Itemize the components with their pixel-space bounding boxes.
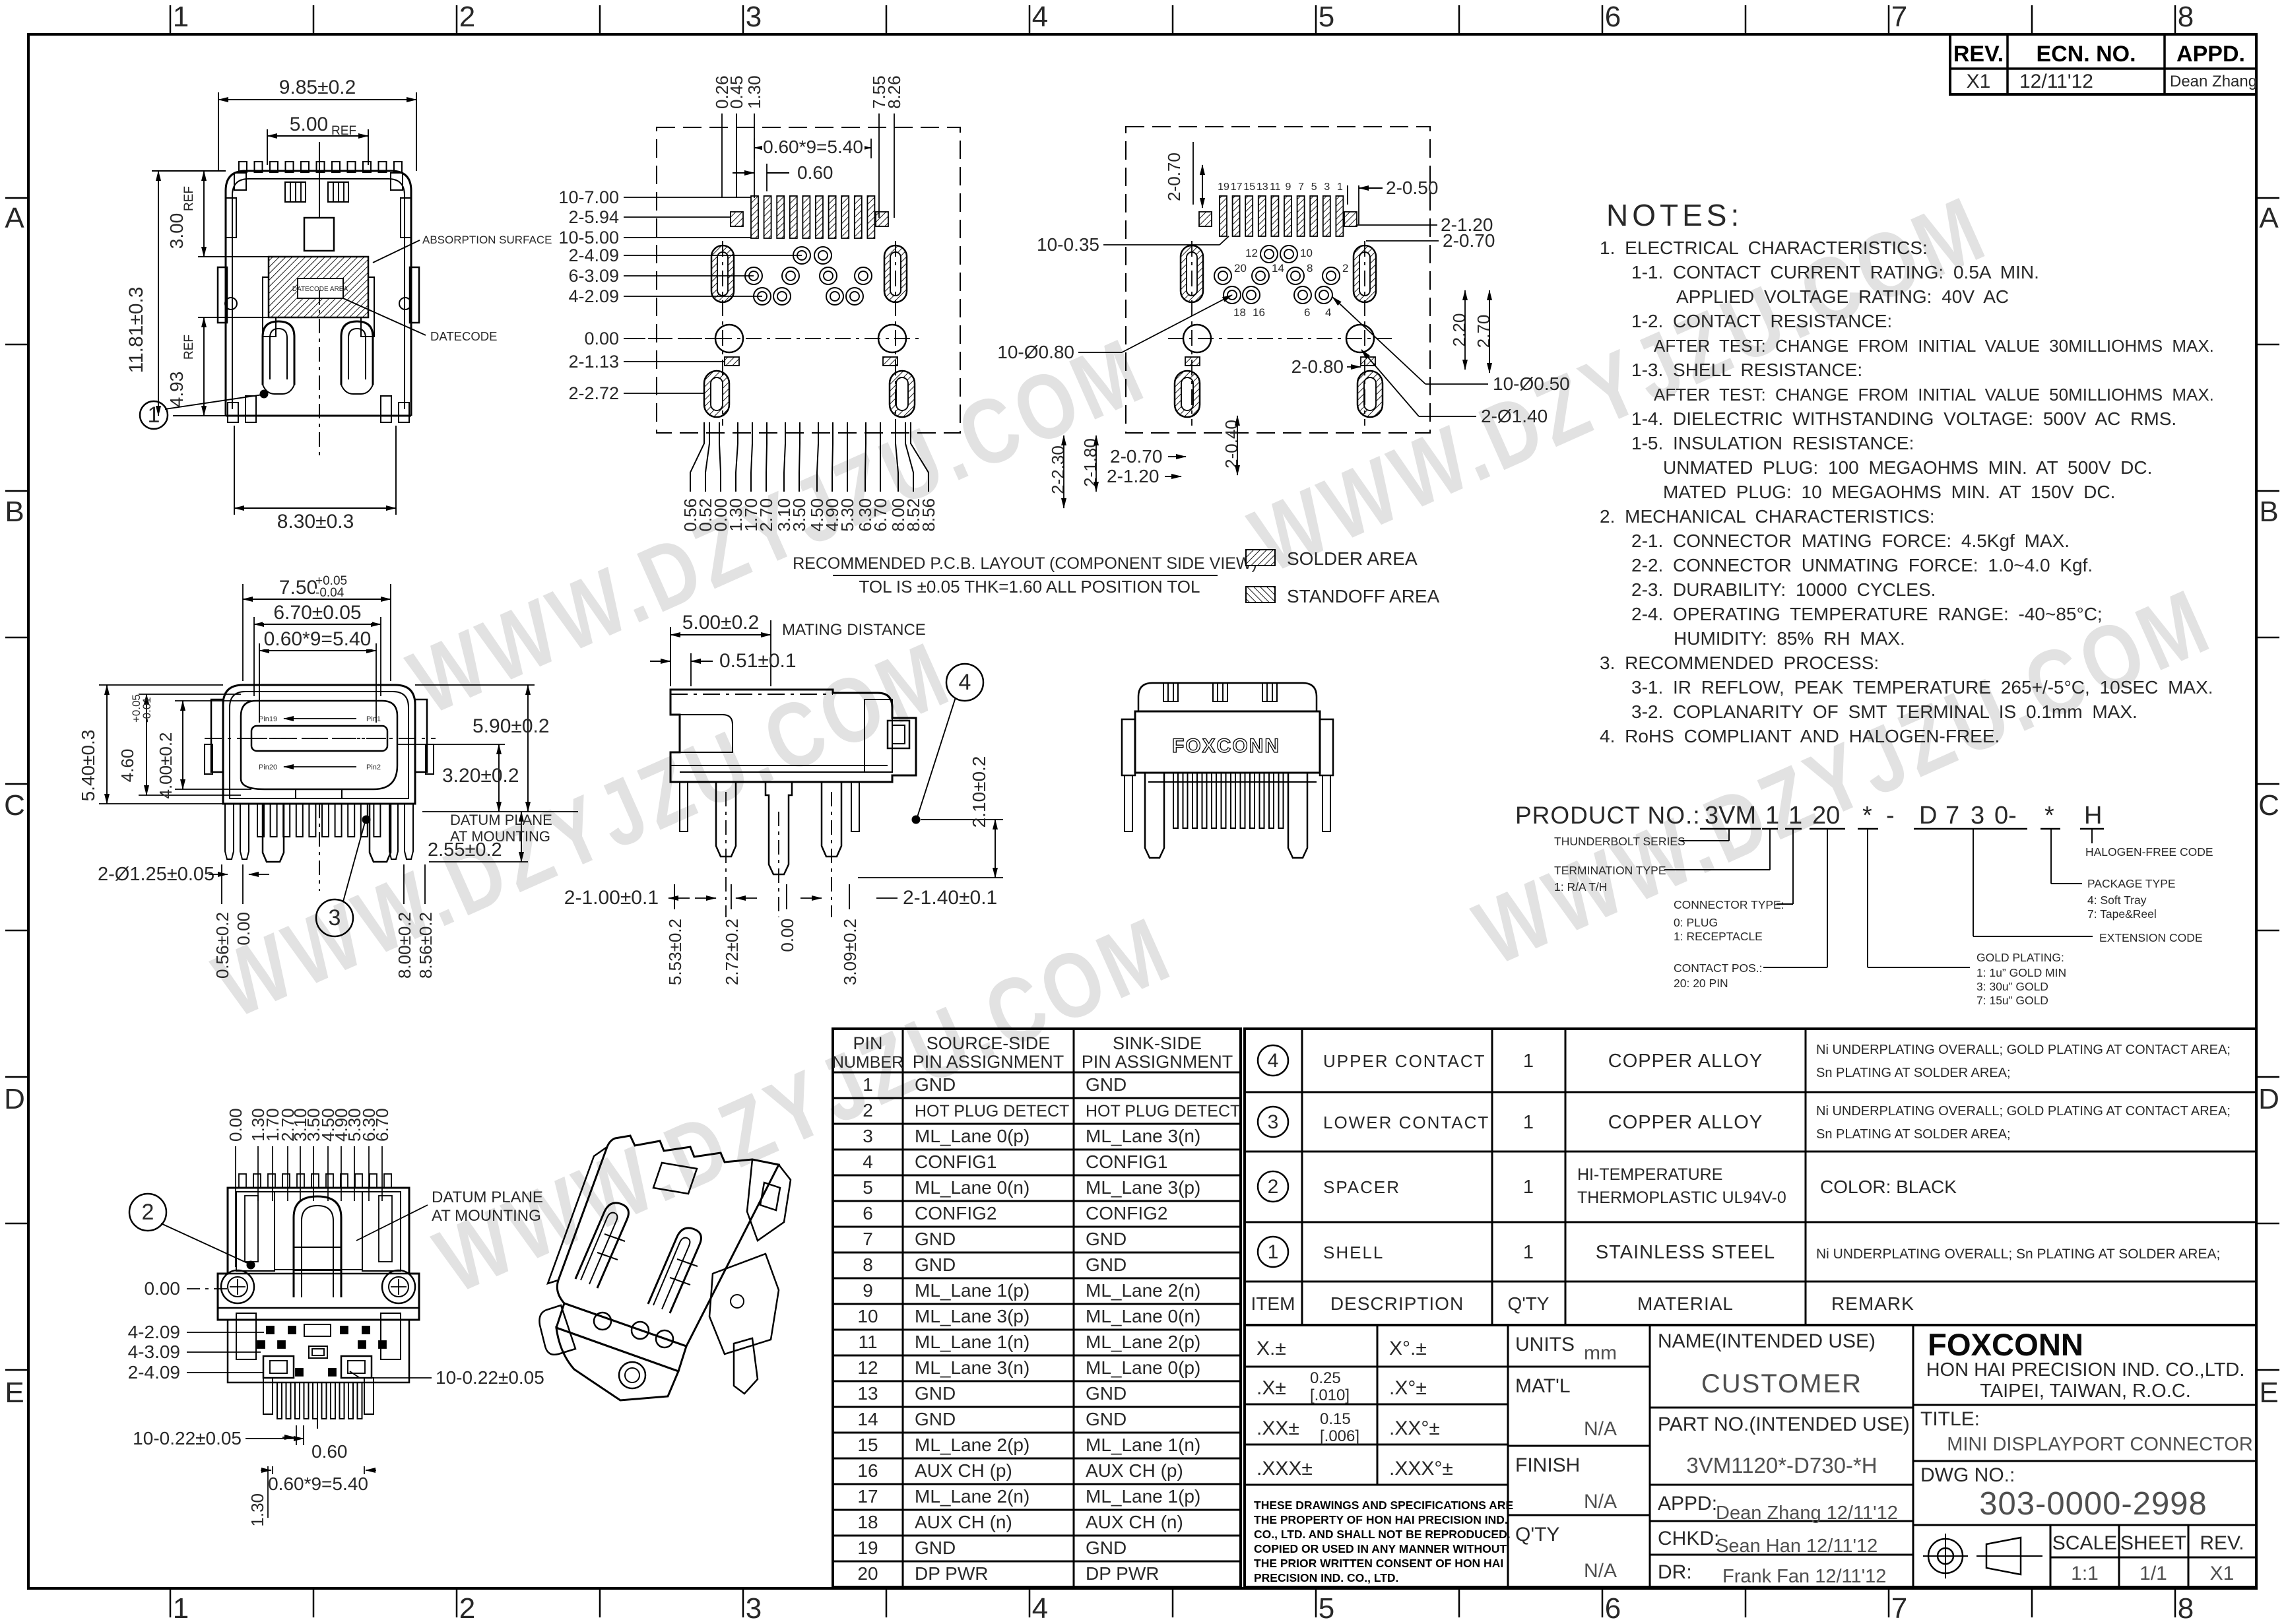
svg-text:Ni UNDERPLATING OVERALL; Sn P: Ni UNDERPLATING OVERALL; Sn PLATING AT S… bbox=[1816, 1247, 2220, 1262]
svg-text:PRECISION IND. CO., LTD.: PRECISION IND. CO., LTD. bbox=[1254, 1571, 1398, 1584]
svg-text:4: Soft Tray: 4: Soft Tray bbox=[2087, 893, 2147, 907]
svg-text:2-1.40±0.1: 2-1.40±0.1 bbox=[903, 887, 997, 909]
svg-text:2-4.09: 2-4.09 bbox=[128, 1362, 180, 1382]
view C centerlines bbox=[1191, 241, 1192, 426]
svg-text:2-0.80: 2-0.80 bbox=[1291, 356, 1344, 377]
svg-text:DWG NO.:: DWG NO.: bbox=[1920, 1464, 2015, 1486]
svg-text:9.85±0.2: 9.85±0.2 bbox=[279, 77, 356, 98]
view C: pcb layout right dashed outline bbox=[1126, 127, 1430, 433]
svg-text:0.60: 0.60 bbox=[311, 1441, 348, 1462]
view D dim 2.55 bbox=[429, 861, 528, 862]
svg-text:12: 12 bbox=[1245, 247, 1258, 259]
svg-text:1: 1 bbox=[1337, 181, 1343, 193]
svg-text:Ni UNDERPLATING OVERALL; GOL: Ni UNDERPLATING OVERALL; GOLD PLATING AT… bbox=[1816, 1043, 2231, 1057]
svg-text:1: 1 bbox=[1523, 1242, 1534, 1263]
watermark diagonal text instances bbox=[394, 315, 1162, 734]
svg-text:.XX°±: .XX°± bbox=[1389, 1417, 1440, 1439]
svg-text:0.00: 0.00 bbox=[584, 329, 619, 348]
svg-text:4-2.09: 4-2.09 bbox=[128, 1322, 180, 1342]
svg-text:N/A: N/A bbox=[1584, 1491, 1617, 1512]
revision table REV/ECN/APPD bbox=[1950, 34, 2256, 94]
svg-text:LOWER CONTACT: LOWER CONTACT bbox=[1323, 1113, 1489, 1132]
svg-text:C: C bbox=[2258, 789, 2279, 822]
svg-text:2-1.20: 2-1.20 bbox=[1107, 466, 1159, 486]
svg-text:6.70: 6.70 bbox=[372, 1108, 392, 1142]
svg-text:CONFIG1: CONFIG1 bbox=[1086, 1152, 1167, 1172]
svg-text:Sn PLATING AT SOLDER AREA;: Sn PLATING AT SOLDER AREA; bbox=[1816, 1066, 2011, 1080]
svg-text:2-0.70: 2-0.70 bbox=[1110, 446, 1162, 467]
svg-text:19: 19 bbox=[1218, 181, 1229, 193]
svg-text:CONFIG1: CONFIG1 bbox=[915, 1152, 996, 1172]
svg-text:ML_Lane 0(n): ML_Lane 0(n) bbox=[915, 1177, 1029, 1198]
svg-text:[.010]: [.010] bbox=[1310, 1386, 1350, 1404]
svg-text:REV.: REV. bbox=[2200, 1532, 2244, 1554]
svg-text:Pin20: Pin20 bbox=[259, 763, 277, 771]
svg-text:PRODUCT NO.:: PRODUCT NO.: bbox=[1515, 802, 1701, 829]
svg-text:REF: REF bbox=[182, 186, 196, 211]
view B dim 0.60*9=5.40 bbox=[754, 139, 755, 158]
svg-text:THE PRIOR WRITTEN CONSENT OF H: THE PRIOR WRITTEN CONSENT OF HON HAI bbox=[1254, 1557, 1503, 1570]
svg-text:REMARK: REMARK bbox=[1831, 1293, 1914, 1314]
svg-text:MATERIAL: MATERIAL bbox=[1637, 1293, 1734, 1314]
view D balloon 3 bbox=[316, 899, 353, 936]
svg-text:COLOR: BLACK: COLOR: BLACK bbox=[1820, 1177, 1957, 1197]
svg-text:17: 17 bbox=[1231, 181, 1243, 193]
svg-text:APPD.: APPD. bbox=[2176, 42, 2245, 67]
view A dimension 9.85 bbox=[218, 92, 219, 171]
svg-text:0.60*9=5.40: 0.60*9=5.40 bbox=[763, 137, 863, 157]
svg-text:UNMATED PLUG: 100 MEGAOHMS MIN: UNMATED PLUG: 100 MEGAOHMS MIN. AT 500V … bbox=[1663, 457, 2152, 478]
svg-text:5.90±0.2: 5.90±0.2 bbox=[473, 715, 550, 737]
svg-text:CO., LTD. AND SHALL NOT BE REP: CO., LTD. AND SHALL NOT BE REPRODUCED. bbox=[1254, 1528, 1511, 1541]
svg-text:9: 9 bbox=[1286, 181, 1291, 193]
svg-text:8: 8 bbox=[863, 1254, 873, 1275]
view D dim 4.60 bbox=[139, 694, 241, 695]
svg-text:THERMOPLASTIC UL94V-0: THERMOPLASTIC UL94V-0 bbox=[1577, 1188, 1786, 1207]
svg-text:2.70: 2.70 bbox=[1474, 315, 1493, 348]
svg-text:ML_Lane 1(n): ML_Lane 1(n) bbox=[1086, 1435, 1200, 1455]
view E dim 0.51 bbox=[690, 653, 692, 686]
svg-text:ML_Lane 2(p): ML_Lane 2(p) bbox=[1086, 1332, 1200, 1352]
svg-text:GND: GND bbox=[1086, 1538, 1127, 1558]
view G bottom terminals bbox=[277, 1382, 282, 1419]
svg-text:2-0.70: 2-0.70 bbox=[1164, 152, 1184, 201]
view A dimension 3.00 REF bbox=[198, 256, 269, 257]
svg-text:3.09±0.2: 3.09±0.2 bbox=[840, 919, 860, 985]
svg-text:5.30: 5.30 bbox=[837, 498, 857, 532]
svg-text:MINI DISPLAYPORT CONNECTOR: MINI DISPLAYPORT CONNECTOR bbox=[1947, 1434, 2253, 1455]
svg-text:2: 2 bbox=[459, 1, 475, 33]
svg-text:mm: mm bbox=[1584, 1342, 1617, 1364]
svg-text:AUX CH (p): AUX CH (p) bbox=[1086, 1460, 1183, 1481]
svg-text:2-2. CONNECTOR UNMATING FORCE:: 2-2. CONNECTOR UNMATING FORCE: 1.0~4.0 K… bbox=[1631, 555, 2093, 575]
svg-text:303-0000-2998: 303-0000-2998 bbox=[1979, 1486, 2207, 1522]
svg-text:GND: GND bbox=[915, 1383, 956, 1404]
svg-text:*: * bbox=[1862, 802, 1872, 829]
svg-text:5.00: 5.00 bbox=[290, 114, 328, 135]
view B locating holes bbox=[715, 325, 743, 352]
svg-text:8.00±0.2: 8.00±0.2 bbox=[395, 912, 414, 979]
svg-text:STAINLESS STEEL: STAINLESS STEEL bbox=[1596, 1242, 1775, 1263]
svg-text:AUX CH (n): AUX CH (n) bbox=[1086, 1512, 1183, 1532]
svg-text:14: 14 bbox=[1272, 262, 1284, 275]
svg-text:1.30: 1.30 bbox=[247, 1493, 267, 1527]
svg-text:TAIPEI, TAIWAN, R.O.C.: TAIPEI, TAIWAN, R.O.C. bbox=[1980, 1380, 2191, 1402]
svg-text:Q'TY: Q'TY bbox=[1515, 1524, 1559, 1545]
svg-text:FOXCONN: FOXCONN bbox=[1172, 735, 1280, 757]
svg-text:8.56±0.2: 8.56±0.2 bbox=[416, 912, 436, 979]
view G balloon 2 bbox=[129, 1194, 166, 1231]
svg-text:7: 7 bbox=[1298, 181, 1304, 193]
svg-text:7: 7 bbox=[1891, 1592, 1907, 1624]
svg-text:0.51±0.1: 0.51±0.1 bbox=[719, 650, 797, 672]
svg-text:3-2. COPLANARITY OF SMT TERMIN: 3-2. COPLANARITY OF SMT TERMINAL IS 0.1m… bbox=[1631, 701, 2138, 722]
svg-text:4.00±0.2: 4.00±0.2 bbox=[156, 732, 176, 798]
svg-text:-0.01: -0.01 bbox=[141, 697, 153, 723]
svg-text:3-1. IR REFLOW, PEAK TEMPERATU: 3-1. IR REFLOW, PEAK TEMPERATURE 265+/-5… bbox=[1631, 677, 2213, 698]
svg-text:6: 6 bbox=[1304, 306, 1310, 319]
svg-text:DATECODE AREA: DATECODE AREA bbox=[292, 286, 348, 293]
svg-text:5.40±0.3: 5.40±0.3 bbox=[78, 730, 98, 802]
svg-text:E: E bbox=[2259, 1377, 2278, 1409]
svg-text:CONFIG2: CONFIG2 bbox=[1086, 1203, 1167, 1223]
svg-text:6: 6 bbox=[863, 1203, 873, 1223]
view E terminals bbox=[716, 782, 736, 857]
svg-text:SPACER: SPACER bbox=[1323, 1177, 1400, 1197]
svg-text:2-1.00±0.1: 2-1.00±0.1 bbox=[564, 887, 659, 909]
svg-text:FOXCONN: FOXCONN bbox=[1928, 1327, 2083, 1362]
svg-text:1-5. INSULATION RESISTANCE:: 1-5. INSULATION RESISTANCE: bbox=[1631, 433, 1914, 453]
svg-text:6.70±0.05: 6.70±0.05 bbox=[273, 602, 361, 624]
view C vias with pin numbers bbox=[1260, 245, 1278, 263]
svg-text:COPPER ALLOY: COPPER ALLOY bbox=[1608, 1112, 1763, 1133]
svg-text:B: B bbox=[2259, 496, 2278, 528]
view A absorption surface label bbox=[373, 240, 420, 263]
svg-text:CUSTOMER: CUSTOMER bbox=[1701, 1369, 1862, 1398]
svg-text:ML_Lane 1(p): ML_Lane 1(p) bbox=[1086, 1486, 1200, 1507]
svg-text:2.20: 2.20 bbox=[1449, 313, 1469, 347]
svg-text:2.10±0.2: 2.10±0.2 bbox=[969, 756, 989, 828]
view C mounting slots bbox=[1181, 245, 1203, 302]
svg-text:2: 2 bbox=[142, 1200, 154, 1225]
svg-text:5.53±0.2: 5.53±0.2 bbox=[665, 919, 685, 985]
svg-text:3: 3 bbox=[1971, 802, 1984, 829]
svg-text:2-2.30: 2-2.30 bbox=[1048, 445, 1068, 494]
svg-text:0.00: 0.00 bbox=[226, 1108, 245, 1142]
svg-text:ECN. NO.: ECN. NO. bbox=[2036, 42, 2136, 67]
svg-text:GND: GND bbox=[1086, 1254, 1127, 1275]
svg-text:AUX CH (p): AUX CH (p) bbox=[915, 1460, 1012, 1481]
svg-text:REV.: REV. bbox=[1953, 42, 2004, 67]
svg-text:CONNECTOR TYPE:: CONNECTOR TYPE: bbox=[1674, 898, 1784, 911]
svg-text:TITLE:: TITLE: bbox=[1920, 1408, 1980, 1430]
item balloons 4,3,2,1 bbox=[1258, 1045, 1288, 1076]
svg-text:ML_Lane 2(n): ML_Lane 2(n) bbox=[915, 1486, 1029, 1507]
svg-text:2-0.40: 2-0.40 bbox=[1222, 420, 1241, 469]
view A dimension 5.00 REF bbox=[267, 129, 268, 165]
svg-text:8.26: 8.26 bbox=[884, 75, 904, 109]
svg-text:COPPER ALLOY: COPPER ALLOY bbox=[1608, 1051, 1763, 1072]
svg-text:2.70: 2.70 bbox=[756, 498, 776, 532]
svg-text:.X±: .X± bbox=[1257, 1377, 1286, 1399]
svg-text:13: 13 bbox=[857, 1383, 878, 1404]
svg-text:CHKD:: CHKD: bbox=[1658, 1528, 1719, 1549]
view F: rear view with foxconn marking bbox=[1138, 683, 1317, 711]
title block units/matl/finish/qty bbox=[1649, 1325, 1651, 1587]
svg-text:AT MOUNTING: AT MOUNTING bbox=[432, 1207, 541, 1225]
svg-text:TOL IS ±0.05 THK=1.60 ALL: TOL IS ±0.05 THK=1.60 ALL POSITION TOL bbox=[859, 577, 1200, 597]
title block tolerance grid bbox=[1245, 1325, 2256, 1587]
svg-text:MATED PLUG: 10 MEGAOHMS MIN. A: MATED PLUG: 10 MEGAOHMS MIN. AT 150V DC. bbox=[1663, 482, 2115, 502]
svg-text:1: 1 bbox=[1765, 802, 1779, 829]
svg-text:ML_Lane 1(p): ML_Lane 1(p) bbox=[915, 1280, 1029, 1301]
view F terminals bbox=[1173, 773, 1178, 828]
svg-text:1: 1 bbox=[1523, 1051, 1534, 1072]
svg-text:18: 18 bbox=[1233, 306, 1246, 319]
svg-text:Dean Zhang 12/11'12: Dean Zhang 12/11'12 bbox=[1716, 1503, 1898, 1524]
svg-text:20: 20 bbox=[857, 1563, 878, 1584]
svg-text:6: 6 bbox=[1605, 1592, 1621, 1624]
view A contact latches bbox=[263, 321, 294, 385]
svg-text:11: 11 bbox=[858, 1332, 877, 1352]
svg-text:N/A: N/A bbox=[1584, 1418, 1617, 1440]
svg-text:4: 4 bbox=[1032, 1, 1048, 33]
svg-text:GND: GND bbox=[1086, 1383, 1127, 1404]
svg-text:GND: GND bbox=[915, 1254, 956, 1275]
svg-text:4-2.09: 4-2.09 bbox=[568, 286, 619, 306]
svg-text:0.45: 0.45 bbox=[727, 75, 746, 109]
view G smt pad pattern bbox=[218, 1320, 419, 1382]
svg-text:FINISH: FINISH bbox=[1515, 1454, 1580, 1476]
svg-text:4: 4 bbox=[1325, 306, 1331, 319]
svg-text:SHEET: SHEET bbox=[2120, 1532, 2186, 1554]
svg-text:X1: X1 bbox=[1967, 71, 1991, 92]
svg-text:GND: GND bbox=[915, 1538, 956, 1558]
svg-text:ABSORPTION SURFACE: ABSORPTION SURFACE bbox=[422, 234, 552, 246]
svg-text:1: 1 bbox=[1523, 1112, 1534, 1133]
svg-text:2-Ø1.25±0.05: 2-Ø1.25±0.05 bbox=[98, 864, 214, 885]
svg-text:H: H bbox=[2084, 802, 2102, 829]
scale sheet rev strip bbox=[2050, 1525, 2052, 1587]
view H: isometric 3d view bbox=[539, 1136, 791, 1400]
svg-text:2-Ø1.40: 2-Ø1.40 bbox=[1481, 406, 1548, 426]
svg-text:5: 5 bbox=[1319, 1592, 1334, 1624]
svg-text:2-1.80: 2-1.80 bbox=[1080, 438, 1100, 487]
svg-text:*: * bbox=[2044, 802, 2054, 829]
svg-text:SCALE: SCALE bbox=[2052, 1532, 2117, 1554]
svg-text:7: 7 bbox=[863, 1229, 873, 1249]
svg-text:MATING DISTANCE: MATING DISTANCE bbox=[782, 621, 926, 639]
svg-text:0.15: 0.15 bbox=[1320, 1410, 1351, 1428]
svg-text:.XXX°±: .XXX°± bbox=[1389, 1458, 1453, 1479]
view A dimension 8.30 bbox=[234, 426, 235, 515]
svg-text:AFTER TEST: CHANGE FROM INITIA: AFTER TEST: CHANGE FROM INITIAL VALUE 30… bbox=[1654, 336, 2214, 356]
view D: receptacle mating face view bbox=[223, 685, 415, 804]
svg-text:3.20±0.2: 3.20±0.2 bbox=[442, 765, 519, 787]
view D dim 5.90 right bbox=[415, 684, 535, 686]
svg-text:DATECODE: DATECODE bbox=[430, 329, 497, 343]
view B solder pads row bbox=[751, 196, 758, 238]
svg-text:6: 6 bbox=[1605, 1, 1621, 33]
view C locating holes bbox=[1183, 325, 1211, 352]
svg-text:THE PROPERTY OF HON HAI PRECIS: THE PROPERTY OF HON HAI PRECISION IND. bbox=[1254, 1513, 1508, 1526]
svg-text:4.93: 4.93 bbox=[166, 372, 187, 408]
svg-text:HI-TEMPERATURE: HI-TEMPERATURE bbox=[1577, 1165, 1722, 1184]
svg-text:GND: GND bbox=[1086, 1074, 1127, 1095]
svg-text:DATUM PLANE: DATUM PLANE bbox=[450, 812, 552, 828]
svg-text:SHELL: SHELL bbox=[1323, 1243, 1384, 1262]
svg-text:Sn PLATING AT SOLDER AREA;: Sn PLATING AT SOLDER AREA; bbox=[1816, 1127, 2011, 1142]
svg-text:GND: GND bbox=[915, 1074, 956, 1095]
svg-text:2-5.94: 2-5.94 bbox=[568, 207, 619, 227]
svg-text:ML_Lane 0(p): ML_Lane 0(p) bbox=[915, 1126, 1029, 1146]
svg-text:0.00: 0.00 bbox=[234, 912, 253, 946]
svg-text:[.006]: [.006] bbox=[1320, 1427, 1359, 1445]
svg-text:1-1. CONTACT CURRENT RATING: 0: 1-1. CONTACT CURRENT RATING: 0.5A MIN. bbox=[1631, 262, 2039, 282]
svg-text:THESE DRAWINGS AND SPECIFICATI: THESE DRAWINGS AND SPECIFICATIONS ARE bbox=[1254, 1499, 1513, 1512]
svg-text:ML_Lane 2(n): ML_Lane 2(n) bbox=[1086, 1280, 1200, 1301]
svg-text:ML_Lane 0(n): ML_Lane 0(n) bbox=[1086, 1306, 1200, 1326]
svg-text:DP PWR: DP PWR bbox=[1086, 1563, 1159, 1584]
svg-text:STANDOFF AREA: STANDOFF AREA bbox=[1287, 586, 1440, 606]
title block name/part/appd bbox=[1912, 1325, 1914, 1587]
svg-text:2-1. CONNECTOR MATING FORCE:: 2-1. CONNECTOR MATING FORCE: 4.5Kgf MAX. bbox=[1631, 531, 2070, 551]
svg-text:0.60*9=5.40: 0.60*9=5.40 bbox=[264, 628, 372, 650]
svg-text:.XX±: .XX± bbox=[1257, 1417, 1299, 1439]
view A balloon 1 bbox=[140, 401, 168, 429]
svg-text:GND: GND bbox=[1086, 1229, 1127, 1249]
svg-text:1-2. CONTACT RESISTANCE:: 1-2. CONTACT RESISTANCE: bbox=[1631, 311, 1892, 331]
view E dim 5.00 mating distance bbox=[670, 627, 671, 686]
svg-text:N/A: N/A bbox=[1584, 1560, 1617, 1582]
svg-text:2. MECHANICAL CHARACTERISTICS:: 2. MECHANICAL CHARACTERISTICS: bbox=[1600, 506, 1935, 527]
svg-text:Pin2: Pin2 bbox=[366, 763, 381, 771]
svg-text:NAME(INTENDED USE): NAME(INTENDED USE) bbox=[1658, 1330, 1876, 1352]
svg-text:2-2.72: 2-2.72 bbox=[568, 383, 619, 403]
svg-text:1: 1u” GOLD MIN: 1: 1u” GOLD MIN bbox=[1976, 966, 2066, 979]
svg-text:CONFIG2: CONFIG2 bbox=[915, 1203, 996, 1223]
svg-text:2-4.09: 2-4.09 bbox=[568, 245, 619, 265]
svg-text:D: D bbox=[4, 1083, 25, 1115]
view A dimension 4.93 REF bbox=[198, 317, 269, 318]
view E balloon 4 bbox=[946, 664, 983, 701]
svg-text:1:1: 1:1 bbox=[2071, 1563, 2099, 1584]
svg-text:1: 1 bbox=[173, 1, 189, 33]
svg-text:AUX CH (n): AUX CH (n) bbox=[915, 1512, 1012, 1532]
svg-text:GND: GND bbox=[915, 1229, 956, 1249]
svg-text:Ni UNDERPLATING OVERALL; GOL: Ni UNDERPLATING OVERALL; GOLD PLATING AT… bbox=[1816, 1104, 2231, 1119]
item material table bbox=[1245, 1029, 2256, 1325]
svg-text:4: 4 bbox=[863, 1152, 873, 1172]
svg-text:1: 1 bbox=[1523, 1177, 1534, 1198]
svg-text:8: 8 bbox=[2178, 1, 2194, 33]
svg-text:NOTES:: NOTES: bbox=[1606, 198, 1743, 232]
svg-text:HOT PLUG DETECT: HOT PLUG DETECT bbox=[915, 1102, 1069, 1121]
svg-text:4-3.09: 4-3.09 bbox=[128, 1342, 180, 1362]
svg-text:1.30: 1.30 bbox=[744, 75, 764, 109]
svg-text:4: 4 bbox=[1268, 1050, 1279, 1072]
third angle projection symbol bbox=[1928, 1539, 1963, 1573]
svg-text:ML_Lane 0(p): ML_Lane 0(p) bbox=[1086, 1357, 1200, 1378]
svg-text:APPD:: APPD: bbox=[1658, 1493, 1717, 1514]
svg-text:A: A bbox=[2259, 202, 2279, 234]
svg-text:GND: GND bbox=[1086, 1409, 1127, 1429]
svg-text:DP PWR: DP PWR bbox=[915, 1563, 989, 1584]
svg-text:16: 16 bbox=[1253, 306, 1265, 319]
svg-text:3: 3 bbox=[863, 1126, 873, 1146]
solder/standoff legend bbox=[1246, 550, 1275, 566]
view B dim 0.60 bbox=[766, 164, 767, 191]
svg-text:11.81±0.3: 11.81±0.3 bbox=[125, 286, 147, 373]
svg-text:12/11'12: 12/11'12 bbox=[2019, 71, 2093, 92]
svg-text:ML_Lane 3(p): ML_Lane 3(p) bbox=[1086, 1177, 1200, 1198]
svg-text:Pin19: Pin19 bbox=[259, 715, 277, 723]
svg-text:CONTACT POS.:: CONTACT POS.: bbox=[1674, 961, 1763, 975]
product number underlines bbox=[1700, 828, 1761, 830]
svg-text:RECOMMENDED P.C.B. LAYOUT (COM: RECOMMENDED P.C.B. LAYOUT (COMPONENT SID… bbox=[793, 554, 1257, 573]
svg-text:SINK-SIDE: SINK-SIDE bbox=[1113, 1033, 1202, 1053]
svg-text:UPPER CONTACT: UPPER CONTACT bbox=[1323, 1051, 1486, 1071]
svg-text:APPLIED VOLTAGE RATING: 40V AC: APPLIED VOLTAGE RATING: 40V AC bbox=[1676, 286, 2009, 307]
view A: shielding case front view bbox=[239, 162, 247, 172]
svg-text:1: 1 bbox=[1788, 802, 1802, 829]
svg-text:0.60*9=5.40: 0.60*9=5.40 bbox=[268, 1474, 368, 1494]
svg-text:0.60: 0.60 bbox=[797, 162, 833, 183]
svg-text:7: 7 bbox=[1945, 802, 1959, 829]
svg-text:1-3. SHELL RESISTANCE:: 1-3. SHELL RESISTANCE: bbox=[1631, 360, 1862, 380]
svg-text:3: 3 bbox=[746, 1592, 762, 1624]
svg-text:2-1.13: 2-1.13 bbox=[568, 352, 619, 372]
svg-text:3: 3 bbox=[329, 905, 341, 930]
view B: pcb layout left dashed outline bbox=[657, 127, 960, 433]
svg-text:1: RECEPTACLE: 1: RECEPTACLE bbox=[1674, 930, 1763, 943]
svg-text:E: E bbox=[5, 1377, 24, 1409]
svg-text:6-3.09: 6-3.09 bbox=[568, 266, 619, 286]
svg-text:X.±: X.± bbox=[1257, 1338, 1286, 1359]
svg-text:A: A bbox=[5, 202, 24, 234]
view B vias bbox=[793, 247, 810, 264]
svg-text:3: 30u” GOLD: 3: 30u” GOLD bbox=[1976, 980, 2048, 993]
svg-text:2.72±0.2: 2.72±0.2 bbox=[722, 919, 742, 985]
svg-text:10-0.35: 10-0.35 bbox=[1037, 234, 1099, 255]
svg-text:HUMIDITY: 85% RH MAX.: HUMIDITY: 85% RH MAX. bbox=[1674, 628, 1905, 649]
svg-text:5: 5 bbox=[1319, 1, 1334, 33]
svg-text:10-5.00: 10-5.00 bbox=[558, 228, 619, 247]
view D bottom rotated labels bbox=[221, 864, 222, 904]
view G: bottom view of connector bbox=[239, 1174, 246, 1188]
svg-text:ML_Lane 2(p): ML_Lane 2(p) bbox=[915, 1435, 1029, 1455]
svg-text:5.00±0.2: 5.00±0.2 bbox=[682, 612, 760, 633]
view B mounting slots hatched bbox=[711, 245, 734, 302]
svg-text:5: 5 bbox=[863, 1177, 873, 1198]
svg-text:10-7.00: 10-7.00 bbox=[558, 187, 619, 207]
svg-text:3VM1120*-D730-*H: 3VM1120*-D730-*H bbox=[1686, 1453, 1877, 1478]
svg-text:4: 4 bbox=[959, 670, 971, 695]
svg-text:HON HAI PRECISION IND. CO.,LTD: HON HAI PRECISION IND. CO.,LTD. bbox=[1926, 1359, 2245, 1380]
svg-text:2-0.70: 2-0.70 bbox=[1443, 230, 1495, 251]
foxconn logo and company block bbox=[1913, 1404, 2256, 1406]
svg-text:10-Ø0.50: 10-Ø0.50 bbox=[1493, 374, 1570, 394]
svg-text:10-Ø0.80: 10-Ø0.80 bbox=[997, 342, 1074, 362]
svg-text:10-0.22±0.05: 10-0.22±0.05 bbox=[436, 1367, 544, 1388]
svg-text:NUMBER: NUMBER bbox=[832, 1053, 903, 1072]
view D dim 3.20 bbox=[397, 744, 505, 745]
svg-text:3VM: 3VM bbox=[1705, 802, 1756, 829]
svg-text:15: 15 bbox=[857, 1435, 878, 1455]
svg-text:8: 8 bbox=[2178, 1592, 2194, 1624]
svg-text:GOLD PLATING:: GOLD PLATING: bbox=[1976, 951, 2064, 964]
svg-text:6.70: 6.70 bbox=[870, 498, 890, 532]
